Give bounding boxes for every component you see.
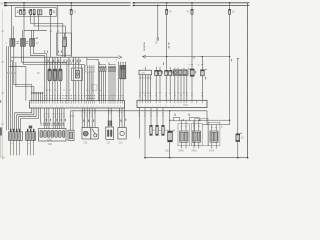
svg-text:60 60 60: 60 60 60 <box>7 72 17 75</box>
wire F6 down <box>166 14 168 70</box>
relay Bb <box>192 131 200 142</box>
wire comp L drop <box>169 111 171 131</box>
arrowhead of feed line (to right page) <box>118 56 121 59</box>
group1 pins <box>87 66 93 72</box>
connector block X5 <box>139 70 152 75</box>
wire x12.5 elbow source <box>11 60 13 62</box>
connector block A <box>9 132 23 141</box>
enclosure around relay Bb <box>191 124 202 146</box>
bottom right rail1 <box>170 119 230 121</box>
wire x13.2 <box>12 26 14 39</box>
sensor 663b <box>162 125 164 135</box>
wire K4 pin up <box>64 33 66 37</box>
svg-text:8462: 8462 <box>192 151 198 153</box>
fuse F2 <box>30 10 32 15</box>
bus 15 second supply line <box>5 4 250 6</box>
ECU2 pin ticks <box>140 101 202 103</box>
enclosure around relay Bc <box>208 122 220 146</box>
relay K3 <box>30 39 35 47</box>
svg-text:8414: 8414 <box>209 151 215 153</box>
connector ticks on stubs row1 <box>46 63 80 68</box>
connector tick x57.8 <box>57 30 59 33</box>
fuse comp L <box>168 131 173 142</box>
relay Bc feed wires <box>211 125 213 131</box>
wire label glyphs bottom middle <box>83 119 126 122</box>
sensor box S1 <box>72 68 83 81</box>
ticks below ECU right <box>81 113 125 117</box>
bottom right rail2 <box>202 124 229 126</box>
block A pin caps <box>10 129 20 132</box>
group1 wires to ECU <box>87 72 98 101</box>
K5 pins below <box>175 75 187 100</box>
K1 third wire <box>9 46 26 100</box>
wire from bus15 x11.6 <box>11 5 13 38</box>
right border wire <box>247 3 249 158</box>
block B tails <box>28 140 34 155</box>
wire jog y30.3 <box>24 29 47 31</box>
connector ticks below ECU left <box>44 114 65 118</box>
connector block B <box>26 132 36 141</box>
wire from bus15 x57.8 <box>57 5 59 55</box>
K5 pin dots <box>174 68 184 69</box>
connector group2 bracket <box>99 62 106 65</box>
stubs above fuse pairs <box>156 67 170 71</box>
X5 pins below <box>140 75 151 101</box>
stub connector symbol <box>157 38 159 41</box>
fuse F8 <box>229 9 231 14</box>
relay Ba <box>180 131 188 142</box>
crank sensor block <box>120 65 126 78</box>
stub glyphs above cluster <box>175 114 190 116</box>
relay tails <box>182 142 217 148</box>
wire left bundle 1 <box>6 46 8 130</box>
fuse F1 <box>23 10 25 15</box>
unit cells <box>40 131 65 138</box>
fuse pair B2 <box>169 70 172 75</box>
svg-text:min: min <box>141 72 146 75</box>
dashed sensor on group1 wires <box>92 85 97 91</box>
svg-text:14 31: 14 31 <box>46 90 52 92</box>
relay row wires down: K1 <box>10 46 12 57</box>
connector tick on F4 wire <box>50 30 52 33</box>
wire bus to F5 <box>70 3 72 10</box>
ignition coil 3 <box>59 69 62 81</box>
wire K3 feeds <box>31 30 33 38</box>
glyphs above feed line <box>44 51 62 53</box>
fuse pair A2 <box>158 70 161 75</box>
X5 top stub <box>144 67 146 71</box>
arrow interconnect from left page <box>143 55 146 58</box>
wire x15.9 elbow <box>16 62 34 101</box>
bus label tick 15 <box>4 5 7 7</box>
ignition coil 2 <box>53 69 56 81</box>
marks left of F2 <box>28 11 30 13</box>
ignition coil stub 3 <box>59 57 61 69</box>
wire bus to F6 <box>166 3 168 10</box>
wire F8 long down <box>229 14 231 124</box>
plain stubs from y57 line <box>47 57 82 100</box>
node bus F6 <box>166 2 168 4</box>
throttle unit box right <box>91 128 98 140</box>
group2 wires to ECU <box>100 72 106 101</box>
svg-text:2308: 2308 <box>165 151 171 153</box>
rail1 label box 448 <box>173 118 179 121</box>
wires below coils to ECU <box>49 81 51 101</box>
long rail below ECUs <box>71 111 207 125</box>
fusebox enclosure <box>15 8 56 17</box>
svg-text:8468: 8468 <box>179 151 185 153</box>
connector group3 bracket <box>108 62 115 65</box>
K2 wires <box>22 46 67 100</box>
fuse F4 <box>50 10 52 15</box>
motor symbol <box>83 131 88 136</box>
relay block K5 <box>173 70 188 76</box>
sensor box stubs <box>75 57 77 70</box>
label right of F4 <box>53 11 55 13</box>
sensor unit box <box>118 128 126 140</box>
sensor element <box>75 71 79 79</box>
relay K4 <box>63 37 67 46</box>
fuse F7 <box>191 9 193 14</box>
ignition coil 1 <box>48 69 51 81</box>
wire F3 elbow right <box>34 15 65 58</box>
svg-text:1K: 1K <box>232 11 235 14</box>
wires below sensor box to ECU <box>75 81 77 101</box>
wire K0 down <box>38 15 40 30</box>
wire comp L to bus <box>169 142 171 158</box>
wire bus to F8 <box>229 3 231 10</box>
wire glyphs below ECU1 <box>46 119 67 121</box>
ECU main box <box>30 101 125 108</box>
block A tails <box>11 140 20 155</box>
group3 wires to ECU <box>109 72 115 101</box>
long feed line y57.2 <box>11 56 119 58</box>
svg-text:=0 C: =0 C <box>183 104 188 107</box>
fuse F6 <box>166 9 168 14</box>
ECU stubs down center <box>40 108 64 129</box>
rail1 label box B448 <box>190 118 200 121</box>
fuse F3 <box>33 10 35 15</box>
wire left bundle 2 <box>8 67 10 131</box>
fuse F5 <box>70 9 72 14</box>
K3 wires <box>31 46 45 100</box>
bus 30 top supply line <box>5 2 250 4</box>
node bus F8 <box>229 2 231 4</box>
fuse R2 <box>201 70 205 76</box>
tick rows above ECU2 <box>139 93 203 97</box>
bottom bus <box>145 157 248 159</box>
wire left bundle 3 <box>10 57 12 130</box>
verticals into ECU left pins <box>36 93 43 101</box>
tall connectors on pump wires <box>108 121 110 126</box>
wires below ECU right half <box>82 108 124 128</box>
ignition coil stub 2 <box>54 57 56 69</box>
pump unit box <box>106 127 114 139</box>
connector group1 loop wire <box>87 57 99 71</box>
enclosure around relay Ba <box>178 124 190 146</box>
junction row y93 <box>32 92 43 94</box>
svg-text:1160: 1160 <box>47 139 53 141</box>
wire F2 elbow right <box>31 15 63 58</box>
wire x22.3 <box>21 30 23 39</box>
switch diagonal <box>92 129 95 134</box>
wires below ECU2 <box>139 108 163 158</box>
wire F7 down <box>191 14 193 69</box>
group3 pins <box>108 67 115 72</box>
left page border <box>2 9 4 160</box>
relay block K0 <box>37 10 42 15</box>
throttle unit box left <box>82 128 91 140</box>
block B pin caps <box>27 129 34 132</box>
ECU2 box <box>137 100 207 107</box>
wire F9 to bottom bus <box>237 142 239 158</box>
wire R1 down <box>191 76 193 100</box>
pin row above bottom-left unit <box>41 123 63 127</box>
wire F5 down through box <box>70 14 72 57</box>
rail crossing marks <box>82 110 126 111</box>
wire R2 down <box>201 76 203 101</box>
wire K4 pin down <box>64 47 66 58</box>
group2 pins <box>99 67 106 72</box>
ignition coil stub 1 <box>49 57 51 69</box>
fuse R1 <box>188 68 190 70</box>
relay Bc <box>210 131 218 142</box>
group4 pins <box>119 62 126 66</box>
ticks below ECU2 <box>139 113 164 117</box>
tall enclosure box <box>195 118 208 146</box>
component glyphs right of pairs <box>162 71 206 79</box>
border tick marks <box>1 31 3 125</box>
wire x237.8 top tick <box>237 58 239 59</box>
node bus F1 <box>23 2 25 4</box>
node bus F5 <box>70 2 72 4</box>
wire x237.8 down <box>237 59 239 134</box>
bus break marks <box>131 2 133 7</box>
wire bus15 to stub connector <box>157 5 159 37</box>
double tick rows above ECU1 <box>44 95 124 98</box>
wires into small unit <box>70 111 72 130</box>
ECU pin ticks <box>32 101 123 103</box>
wire label glyphs right side <box>163 43 232 65</box>
dark connector above block B <box>29 126 33 129</box>
wire F4 down <box>50 15 52 58</box>
relay K2 <box>20 39 25 47</box>
wire left bundle 4 <box>12 61 14 130</box>
small unit right of big unit <box>68 130 74 140</box>
pin ticks above R1 <box>191 63 203 66</box>
connector marks near relays <box>17 38 38 44</box>
group1 dashed housing <box>85 65 94 72</box>
relay K1 <box>10 39 15 47</box>
bottom-left big unit box <box>39 129 66 142</box>
node bus F7 <box>191 2 193 4</box>
relay Bb feed wires <box>193 120 195 131</box>
fuse pair A1 <box>155 70 158 75</box>
wires below fuse pairs <box>156 75 170 100</box>
wire F1 to relay K2 <box>23 15 25 39</box>
vertical label near arrow tail <box>144 43 145 51</box>
stub label glyphs <box>44 60 81 63</box>
group4 wires to ECU <box>119 65 124 100</box>
fuse pair B1 <box>165 70 168 75</box>
sensor 663a <box>156 125 158 135</box>
page edge artifact <box>0 127 2 135</box>
wire bus to F1 <box>23 3 25 10</box>
relay Ba feed wires <box>181 120 183 131</box>
wire drop to R2 from arrow line <box>201 57 203 70</box>
ECU left stub bundle to bottom connectors <box>15 108 32 130</box>
R2 lever <box>204 69 207 71</box>
enclosure box around relay K4 <box>56 33 71 55</box>
lambda sensor 849 <box>150 125 152 135</box>
fuse F9 <box>236 134 240 142</box>
wire bus to F7 <box>191 3 193 10</box>
bus label tick 30 <box>4 2 7 4</box>
component C1 in fusebox <box>17 11 19 13</box>
